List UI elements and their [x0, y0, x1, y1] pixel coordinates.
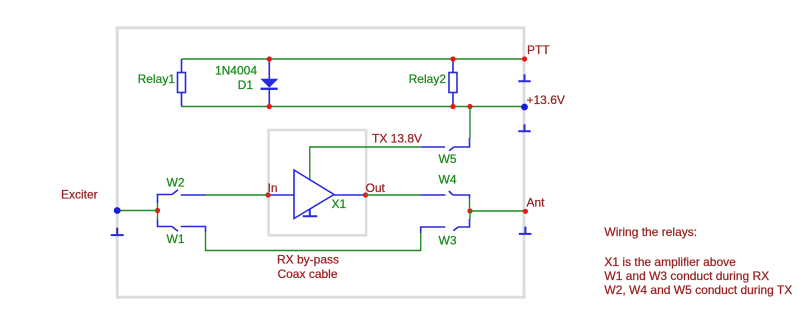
svg-text:1N4004: 1N4004: [215, 64, 257, 78]
label TX 13.8V: [372, 132, 422, 146]
ground G3 (Ant): [519, 227, 532, 234]
pin Out: [363, 192, 368, 197]
svg-text:W4: W4: [439, 173, 457, 187]
wire Out to W4: [366, 194, 421, 196]
wire W5 feed: [469, 107, 471, 139]
note heading: [604, 225, 697, 239]
svg-text:W1 and W3 conduct during RX: W1 and W3 conduct during RX: [604, 269, 769, 283]
wire W1 riser: [157, 211, 159, 220]
svg-text:X1 is the amplifier above: X1 is the amplifier above: [604, 255, 736, 269]
svg-text:W2: W2: [167, 176, 185, 190]
label Coax cable: [277, 267, 337, 281]
label Exciter: [61, 187, 98, 201]
junction diode top: [267, 56, 272, 61]
wire W4 to junction: [469, 198, 471, 211]
node Ant: [523, 209, 528, 214]
svg-text:Coax cable: Coax cable: [277, 267, 337, 281]
svg-text:D1: D1: [238, 78, 254, 92]
junction Relay2 bottom: [450, 104, 455, 109]
node +13.6V: [521, 104, 528, 111]
note line X1: [604, 255, 736, 269]
wire junction to Ant: [470, 210, 525, 212]
label Relay1: [138, 72, 176, 86]
junction diode bottom: [267, 104, 272, 109]
label In: [268, 181, 278, 195]
svg-text:PTT: PTT: [527, 43, 550, 57]
switch W5: [421, 138, 470, 151]
wire RX by-pass: [206, 232, 421, 251]
svg-text:Out: Out: [366, 181, 386, 195]
ground G1: [518, 74, 530, 81]
svg-text:Relay1: Relay1: [138, 72, 176, 86]
svg-text:Ant: Ant: [527, 196, 546, 210]
note line TX: [604, 283, 792, 297]
switch W4: [421, 191, 470, 198]
junction Relay2 top: [450, 56, 455, 61]
switch W3: [421, 219, 470, 233]
wire TX 13.8V: [310, 147, 421, 181]
label W1: [167, 232, 185, 246]
amplifier module box: [269, 130, 367, 235]
svg-text:RX by-pass: RX by-pass: [277, 252, 339, 266]
note line RX: [604, 269, 769, 283]
label W4: [439, 173, 457, 187]
enclosure outline (relay box): [117, 28, 524, 297]
label Out: [366, 181, 386, 195]
svg-text:W5: W5: [439, 152, 457, 166]
label W3: [439, 234, 457, 248]
wire W2 riser: [157, 203, 159, 211]
label RX by-pass: [277, 252, 339, 266]
svg-text:W2, W4 and W5 conduct during T: W2, W4 and W5 conduct during TX: [604, 283, 792, 297]
label Ant: [527, 196, 546, 210]
svg-text:Wiring the relays:: Wiring the relays:: [604, 225, 697, 239]
svg-text:Relay2: Relay2: [409, 72, 447, 86]
wire top rail: [182, 58, 525, 60]
wire bottom rail: [182, 106, 525, 108]
label D1: [238, 78, 254, 92]
pin In: [265, 192, 270, 197]
svg-text:TX 13.8V: TX 13.8V: [372, 132, 422, 146]
junction W5 tap: [467, 104, 472, 109]
ground G4 (Exciter): [111, 228, 124, 235]
label 1N4004: [215, 64, 257, 78]
label W5: [439, 152, 457, 166]
wire junction to W3: [469, 211, 471, 219]
ground G2: [518, 124, 530, 131]
node PTT: [522, 56, 527, 61]
junction W4 W3: [467, 208, 472, 213]
diode D1: [260, 59, 278, 107]
svg-text:W3: W3: [439, 234, 457, 248]
svg-text:Exciter: Exciter: [61, 187, 98, 201]
label W2: [167, 176, 185, 190]
switch W1: [158, 220, 206, 233]
label Relay2: [409, 72, 447, 86]
wire Exciter: [117, 210, 157, 212]
wire W2 to In: [206, 194, 268, 196]
switch W2: [158, 190, 207, 203]
svg-text:W1: W1: [167, 232, 185, 246]
amplifier X1: [268, 170, 366, 219]
label X1: [332, 197, 347, 211]
svg-text:In: In: [268, 181, 278, 195]
label PTT: [527, 43, 550, 57]
label +13.6V: [527, 93, 565, 107]
relay coil Relay2: [449, 59, 457, 107]
relay coil Relay1: [178, 59, 186, 107]
svg-text:X1: X1: [332, 197, 347, 211]
node Exciter: [114, 207, 121, 214]
svg-text:+13.6V: +13.6V: [527, 93, 565, 107]
junction Exciter split: [155, 208, 160, 213]
